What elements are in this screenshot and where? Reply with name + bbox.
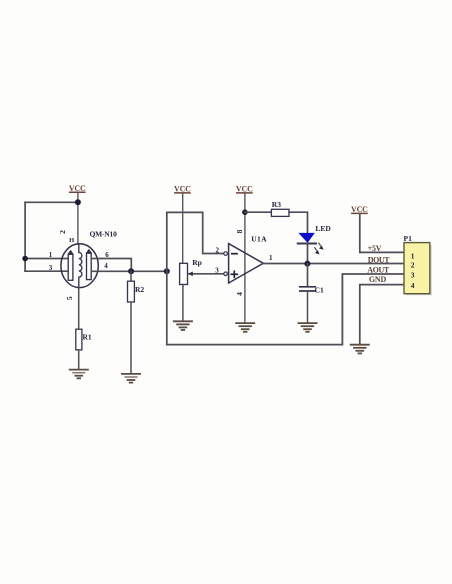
LED light arrow 1: [319, 243, 324, 250]
wire node down to C1: [307, 264, 309, 287]
wire LED cathode down to output net: [307, 244, 309, 264]
svg-text:8: 8: [235, 229, 244, 233]
wire C1 to ground: [307, 291, 309, 323]
svg-text:R3: R3: [272, 200, 281, 209]
node junction pin1 left: [22, 256, 28, 262]
node junction R2 top: [128, 268, 134, 274]
svg-text:5: 5: [65, 296, 74, 300]
svg-text:P1: P1: [404, 234, 413, 243]
wire GND: connector pin4 to ground: [360, 285, 404, 345]
svg-text:2: 2: [58, 230, 67, 234]
ground (GND net): [351, 345, 369, 354]
node junction divider net: [164, 268, 170, 274]
sensor electrode B: [86, 249, 92, 280]
power VCC (right, +5V): [351, 205, 368, 214]
svg-text:U1A: U1A: [251, 235, 267, 244]
node junction VCC top-left: [75, 199, 81, 205]
ground (under R2): [122, 374, 140, 383]
svg-text:4: 4: [235, 292, 244, 296]
svg-text:DOUT: DOUT: [368, 256, 391, 265]
svg-text:AOUT: AOUT: [367, 266, 390, 275]
wire VCC to connector pin1: [360, 214, 404, 253]
svg-text:1: 1: [49, 251, 53, 259]
svg-text:QM-N10: QM-N10: [90, 230, 118, 239]
wire Rp bottom to ground: [182, 285, 184, 321]
svg-text:+5V: +5V: [368, 244, 382, 253]
svg-text:C1: C1: [315, 286, 324, 295]
op-amp U1A: [224, 235, 267, 284]
ground (under Rp): [174, 321, 192, 330]
resistor R1: [76, 329, 92, 350]
potentiometer Rp: [180, 258, 202, 285]
sensor heater coil: [79, 244, 82, 288]
svg-text:3: 3: [49, 264, 53, 272]
resistor R3: [271, 200, 289, 217]
svg-text:R2: R2: [135, 285, 144, 294]
ground (under C1): [298, 323, 316, 332]
wire R1 to ground: [78, 350, 80, 369]
wire VCC stem down to sensor pin2: [77, 193, 79, 244]
power VCC (above Rp): [174, 185, 191, 194]
resistor R2: [128, 281, 145, 302]
wire R2 to ground: [130, 302, 132, 374]
svg-text:1: 1: [411, 251, 415, 260]
svg-text:4: 4: [411, 281, 415, 290]
wire VCC stem / op-amp power rail: [244, 193, 246, 322]
wire divider net vertical: [166, 212, 168, 344]
wire sensor pin6: [92, 259, 132, 272]
wire left vertical: [24, 202, 26, 271]
node junction LED / output: [304, 261, 310, 267]
wiper arrowhead: [188, 272, 193, 277]
svg-text:2: 2: [216, 246, 220, 254]
wire VCC to Rp top: [182, 193, 184, 263]
wire sensor pin5 to R1: [78, 288, 80, 330]
wire sensor pin1: [25, 258, 68, 260]
sensor QM-N10 body: [61, 244, 98, 288]
wire VCC node to R3: [245, 211, 272, 213]
wiper wire to non-inverting input: [189, 273, 224, 275]
sensor electrode A: [67, 250, 73, 280]
svg-text:H: H: [69, 237, 74, 244]
svg-text:Rp: Rp: [192, 258, 202, 267]
wire op-amp output to connector pin2 (DOUT net): [263, 263, 404, 265]
LED light arrow 2: [315, 248, 320, 255]
wire to op-amp inverting input: [167, 212, 224, 253]
svg-text:2: 2: [411, 260, 415, 269]
svg-text:4: 4: [104, 262, 108, 270]
svg-text:R1: R1: [83, 332, 92, 341]
svg-text:3: 3: [215, 267, 219, 275]
node junction VCC / R3: [242, 209, 248, 215]
wire sensor pin4 to node: [92, 270, 167, 272]
svg-text:3: 3: [411, 271, 415, 280]
power VCC (top-left): [69, 184, 86, 193]
wire top-left horizontal: [25, 201, 78, 203]
capacitor C1: [300, 286, 324, 295]
wire R3 to LED: [289, 212, 308, 233]
svg-text:1: 1: [269, 254, 273, 262]
power VCC (above op-amp): [236, 185, 253, 194]
LED D1: [298, 224, 332, 244]
svg-text:GND: GND: [369, 275, 387, 284]
wire sensor pin3: [25, 270, 68, 272]
wire R2 top lead: [130, 271, 132, 281]
svg-text:LED: LED: [315, 224, 331, 233]
connector P1: [404, 234, 432, 295]
wire AOUT: bottom run: [167, 274, 404, 345]
ground (under op-amp pin 4): [236, 323, 254, 332]
ground (under R1): [70, 370, 88, 379]
